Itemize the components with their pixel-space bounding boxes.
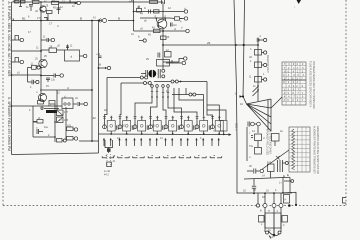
terminal J15 [181, 27, 189, 33]
ground G1 [40, 106, 44, 110]
crystal X3 [57, 110, 69, 116]
electrolytic C9 black bar [44, 109, 59, 114]
gang trimmer plates [158, 69, 165, 78]
fan link stage6 [168, 97, 182, 116]
svg-text:GENERATOR COUPLING DUMMY ANT 4: GENERATOR COUPLING DUMMY ANT 400 [316, 126, 319, 174]
terminal J21 [260, 169, 263, 172]
svg-text:AS CHOKE 450 OHMS: AS CHOKE 450 OHMS [269, 129, 272, 154]
terminal J7 [60, 74, 63, 77]
table 2 columns [302, 127, 306, 172]
svg-text:+12: +12 [96, 53, 101, 56]
wire y=122 link [33, 121, 37, 123]
band bracket x=104 [105, 78, 108, 116]
resistor R14 [150, 0, 158, 3]
svg-text:MEGOHM VOLT: MEGOHM VOLT [266, 55, 269, 73]
bottom squiggle [269, 231, 280, 239]
cone tail wire [258, 55, 269, 101]
table 1 frame [282, 62, 306, 105]
driver cap C8 [96, 53, 102, 58]
coupling box C17 [267, 161, 274, 178]
wire y=11.5 [134, 11, 168, 13]
tuned stage S4 [149, 116, 165, 135]
svg-text:200: 200 [150, 0, 155, 1]
resistor R8 [38, 98, 44, 104]
capacitor C12 [144, 7, 151, 14]
svg-text:B: B [80, 16, 82, 20]
detector out line y=171 [247, 165, 260, 174]
tuned stage S8 [211, 116, 224, 135]
svg-text:E: E [287, 173, 289, 177]
connector plug P2 [263, 204, 267, 208]
svg-text:181: 181 [67, 124, 72, 127]
resistor R21 [250, 60, 264, 68]
svg-text:H: H [268, 210, 270, 213]
label B1 [22, 16, 82, 20]
svg-text:B: B [118, 17, 120, 21]
resistor R11 [66, 107, 75, 140]
rectifier arrow [273, 228, 276, 238]
tuning cone L1 [243, 97, 271, 132]
terminal J6 [84, 54, 87, 57]
svg-text:44 2: 44 2 [104, 174, 109, 177]
tuned stage S3 [133, 116, 149, 135]
svg-text:42: 42 [93, 116, 97, 120]
wire top rail y=2 [12, 1, 164, 3]
connector pin P5 [288, 204, 291, 207]
wire vertical x=133.5 [133, 0, 135, 31]
capacitor C10 [36, 126, 43, 134]
capacitor C1 [29, 5, 33, 12]
resistor R10 [33, 117, 43, 123]
stage S6 contact arrows [180, 138, 189, 146]
fan link right leg x=219 [207, 105, 219, 121]
detector chain top terminal J17 [257, 35, 267, 46]
stage S8 switch contacts [210, 156, 222, 158]
stage S1 switch contacts [102, 156, 114, 158]
resistor R13 [57, 139, 67, 143]
resistor R12 [67, 137, 75, 141]
svg-text:SPEAKER FIELD USED: SPEAKER FIELD USED [266, 129, 269, 155]
mixer output line y=81.5 [154, 80, 207, 83]
svg-text:VOLTAGES MEASURED TO CHASSIS G: VOLTAGES MEASURED TO CHASSIS GND [312, 61, 315, 109]
label 250 bottom [268, 229, 271, 232]
connector stub x=274 [273, 192, 275, 203]
resistor R24 [249, 141, 262, 154]
side box D3 [259, 210, 265, 223]
label d [67, 86, 69, 90]
terminal J22 [284, 180, 294, 183]
wire oscillator vertical x=244 [243, 0, 245, 96]
oscillator coil T3 box [157, 60, 170, 67]
fan link stage4 [151, 97, 158, 116]
dashed border frame left edge [2, 0, 4, 206]
wire to terminal [73, 102, 84, 106]
resistor R6 [41, 46, 57, 53]
wire x=283 drop [282, 178, 284, 194]
terminal J3 [51, 38, 54, 41]
RF input component X2 [12, 58, 21, 63]
power unit vertical x=274 [273, 208, 275, 237]
wire emitter y=76 [40, 67, 53, 77]
wire vertical x=258 lower [257, 126, 259, 133]
table 1 side notes [309, 61, 316, 109]
svg-text:250: 250 [31, 0, 36, 1]
label 26 [207, 41, 211, 45]
tuned stage S6 [180, 116, 196, 135]
terminal J24 [36, 80, 39, 83]
stage S5 contact arrows [164, 138, 173, 146]
terminal J5 [20, 60, 23, 63]
svg-text:173: 173 [37, 17, 42, 20]
resistor R19 [165, 49, 172, 57]
wire vertical x=55 [54, 104, 56, 142]
side box D4 [268, 210, 288, 222]
wire vertical x=98.5 [98, 21, 100, 154]
resistor R3 [52, 0, 59, 4]
dashed border frame bottom edge [3, 205, 346, 207]
capacitor C11 [162, 0, 165, 4]
fan link right leg x=203.5 [203, 95, 205, 116]
fan link stage5 [163, 97, 166, 116]
wire corner x=290 [289, 177, 291, 192]
connector stub x=281 [280, 193, 282, 204]
transistor Q4 [144, 15, 167, 30]
fan link stage8 [179, 97, 204, 100]
label a [9, 62, 11, 66]
component D1 [175, 17, 183, 20]
fan link stage3 [135, 97, 152, 116]
stage S8 contact arrows [211, 138, 220, 146]
connector stub x=258 [257, 193, 259, 203]
svg-text:151: 151 [36, 65, 41, 68]
table 1 leader line [271, 97, 282, 108]
antenna connector J2 [99, 17, 120, 23]
label b terminal [138, 35, 146, 43]
output transformer T4 [276, 156, 288, 172]
svg-text:11u: 11u [44, 126, 49, 129]
wire line y=106 [12, 105, 63, 107]
table 1 cell digits [283, 63, 304, 102]
wire vertical x=92 [91, 21, 93, 142]
power block box [265, 213, 281, 228]
capacitor C18 [252, 179, 256, 195]
crystal X4 [57, 117, 69, 123]
vertical label 8351 [235, 123, 238, 131]
svg-text:M: M [99, 64, 101, 67]
terminal J13 [167, 10, 188, 13]
svg-text:H: H [285, 199, 287, 202]
coupling box L2 [272, 134, 280, 147]
terminal J18 [264, 51, 267, 54]
transistor Q1 converter [40, 5, 49, 13]
terminal J12 [163, 57, 187, 62]
label 42 [93, 116, 97, 120]
band wire y=77 [107, 76, 148, 79]
svg-text:B1: B1 [22, 16, 26, 20]
svg-text:TUBE PLATE SCREEN GRID CATHODE: TUBE PLATE SCREEN GRID CATHODE V [309, 61, 312, 108]
svg-text:8351 C: 8351 C [235, 123, 238, 131]
wire link y=141 [79, 140, 99, 142]
wire audio line y=90 [40, 89, 92, 91]
resistor R9 [49, 101, 55, 105]
gang left plates [141, 70, 148, 78]
left margin vertical caption text [7, 2, 11, 152]
power unit vertical x=281 [280, 208, 282, 233]
RF input component X1 [12, 36, 21, 41]
wire y=18 [140, 17, 170, 19]
tuned stage S7 [195, 116, 211, 135]
switch legs group [151, 84, 179, 98]
capacitor C19 [28, 80, 36, 89]
stage S3 contact arrows [133, 138, 142, 146]
transistor Q2 [35, 58, 47, 68]
terminal J16 [166, 60, 186, 65]
table 1 columns [286, 62, 300, 105]
connector plug P1 [256, 204, 259, 207]
bias bracket x=27.5 [28, 63, 38, 83]
heater box B1 [283, 192, 297, 206]
table 1 rows [282, 66, 306, 102]
fan link right leg x=226 [207, 110, 226, 120]
arrow terminal J8 [99, 64, 111, 70]
wire collector link [59, 0, 78, 3]
label +B [129, 0, 133, 3]
svg-text:12u: 12u [51, 79, 56, 82]
terminal J9 [84, 102, 87, 105]
wire bottom return y=154 [12, 153, 99, 155]
label E [283, 174, 285, 178]
table 2 leader line [261, 150, 289, 170]
cone base cluster [248, 122, 260, 127]
transistor Q3 audio [39, 94, 47, 102]
right border connector [343, 198, 347, 204]
stage S4 switch contacts [148, 156, 160, 158]
wire vertical x=247 [246, 127, 248, 161]
tuning gang black disc [148, 70, 156, 78]
output transformer T2 box [62, 96, 73, 109]
wire vertical x=57 [56, 90, 58, 110]
wire emitter feed y=75 [11, 72, 41, 76]
stage S2 contact arrows [118, 138, 127, 146]
power unit vertical x=265 [264, 208, 266, 233]
capacitor C5 [66, 45, 73, 51]
terminal J4 [20, 38, 23, 41]
switch stem dotted [104, 154, 116, 177]
stage S5 switch contacts [164, 156, 176, 158]
table 2 frame [289, 127, 310, 172]
table 2 rows [289, 131, 310, 165]
resistor R17 [154, 29, 161, 32]
resistor R5 with tap [44, 17, 47, 21]
IF bus y=134 [99, 133, 232, 136]
wire B+ rail y=45 [163, 44, 258, 46]
vertical note text [266, 129, 272, 155]
connector plug P4 [279, 204, 283, 208]
svg-text:S. SPEAKER FIELD 450 OHMS PM: S. SPEAKER FIELD 450 OHMS PM [7, 97, 11, 151]
detector line y=94.5 [172, 88, 204, 96]
connector stub x=265 [264, 192, 266, 203]
output block vertical x=237 [236, 141, 238, 194]
speaker wire y=178 [244, 175, 290, 185]
IF transformer T1 box [57, 50, 84, 61]
stage S6 switch contacts [179, 156, 191, 158]
junction D2 [235, 93, 245, 98]
tuned stage S1 [103, 116, 119, 135]
resistor R23 [249, 132, 262, 141]
wire y=51 stub [12, 50, 42, 52]
wire y=137 [33, 136, 55, 138]
wire vertical x=33 [32, 106, 34, 137]
terminal J10 [74, 128, 77, 131]
capacitor C4 [41, 36, 51, 42]
capacitor C7 [46, 78, 50, 82]
terminal J1 [75, 1, 81, 4]
wire AVC rail y=20.5 [12, 18, 134, 20]
detector chain vertical [257, 45, 259, 96]
stage S7 contact arrows [195, 138, 204, 146]
band bracket x=119 [120, 83, 121, 116]
svg-text:1T: 1T [49, 23, 52, 26]
top right arrow marker [294, 0, 301, 9]
tuned stage S9 partial [221, 121, 228, 136]
terminal J14 [170, 17, 188, 20]
resistor R15 [137, 6, 142, 13]
switch wiper bracket [105, 140, 113, 153]
terminal J11 [74, 137, 77, 140]
terminal J23 [37, 66, 40, 69]
capacitor C14 [158, 53, 160, 58]
fan link stage7 [174, 97, 197, 116]
stage S7 switch contacts [195, 156, 207, 158]
pilot circle P7 [278, 231, 281, 234]
terminal J20 [264, 78, 267, 81]
table 2 waveform column [292, 127, 298, 172]
label E2 [287, 173, 289, 177]
capacitor C2 [57, 4, 64, 14]
terminal J19 [264, 63, 267, 66]
fan link right leg x=207 [207, 82, 213, 116]
scattered labels [13, 0, 285, 239]
capacitor C3 [19, 0, 22, 7]
stage S2 switch contacts [118, 156, 130, 158]
resistor R4 [47, 11, 53, 21]
resistor R18 [140, 27, 176, 40]
stage S3 switch contacts [133, 156, 145, 158]
variable arrows V1 [253, 85, 260, 96]
wire base rail y=31 [134, 30, 187, 32]
resistor R16 [154, 10, 160, 13]
wire vertical x=41 [40, 2, 42, 94]
band wire y=82 [121, 82, 151, 85]
resistor R2 [31, 0, 39, 3]
capacitor C6 [51, 74, 60, 82]
resistor R20 [250, 48, 264, 55]
wire vertical x=163 [162, 2, 164, 70]
output block bottom wire y=193 [237, 190, 292, 194]
svg-text:ALIGNMENT POINTS AND TRIMMERS: ALIGNMENT POINTS AND TRIMMERS SET [313, 126, 316, 174]
stage S4 contact arrows [149, 138, 158, 146]
svg-text:1u1: 1u1 [267, 161, 272, 164]
resistor R22 [249, 76, 264, 83]
wire oscillator vertical x=235 [234, 0, 237, 141]
wire left bus vertical x=11.5 [11, 2, 13, 155]
dashed border frame right edge [345, 0, 347, 206]
svg-text:+B: +B [129, 0, 133, 3]
connector plug P3 [272, 204, 276, 208]
stage S1 contact arrows [103, 138, 112, 146]
tuned stage S5 [164, 116, 180, 135]
resistor R1 [15, 0, 26, 3]
capacitor C13 [171, 23, 178, 28]
tuned stage S2 [118, 116, 134, 135]
svg-text:26: 26 [207, 41, 211, 45]
svg-text:1t: 1t [144, 7, 146, 10]
svg-text:T2u: T2u [249, 145, 254, 148]
pilot circle P6 [266, 231, 269, 234]
svg-text:EF: EF [38, 98, 42, 101]
table 2 side notes [313, 126, 320, 174]
